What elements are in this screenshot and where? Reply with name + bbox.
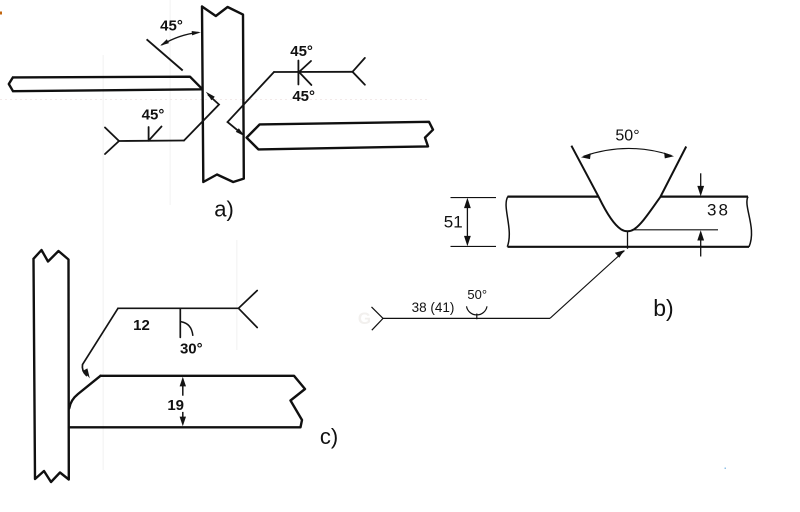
figure b: right S-curve break line — [747, 197, 752, 247]
svg-text:19: 19 — [167, 397, 184, 414]
figure c: horizontal plate with bevelled left end — [69, 376, 305, 428]
figure a: left weld symbol bevel symbol — [149, 127, 162, 141]
figure a: right weld symbol reference line — [228, 58, 365, 134]
figure b: plate cross-section top edge (right of groove) — [660, 196, 748, 198]
figure a: right weld symbol K (double bevel) symbol — [298, 61, 311, 86]
figure c: 19 dimension arrows — [182, 381, 184, 396]
figure b: plate cross-section bottom edge — [508, 246, 750, 248]
scan artifact: faint vertical streaks — [102, 55, 104, 470]
svg-text:50°: 50° — [615, 128, 639, 145]
svg-text:c): c) — [320, 424, 338, 449]
figure b: left S-curve break line — [506, 197, 509, 247]
svg-text:51: 51 — [444, 212, 463, 231]
svg-text:45°: 45° — [290, 43, 313, 60]
figure a: left horizontal plate with bevelled right end — [9, 77, 202, 92]
svg-text:45°: 45° — [142, 106, 165, 123]
svg-text:G: G — [358, 309, 371, 328]
figure c: bevel curve at plate left end — [69, 376, 100, 409]
figure a: right weld symbol leader — [228, 72, 275, 134]
figure b: U-groove weld preparation outline — [571, 146, 686, 232]
svg-text:b): b) — [653, 295, 673, 321]
figure b: 51 dimension double arrow — [466, 203, 468, 241]
figure b: 38 top arrow — [700, 173, 702, 191]
svg-text:a): a) — [214, 197, 234, 222]
figure a: right weld symbol tail fork — [353, 58, 365, 85]
figure b: 50deg angle arc with arrowheads — [584, 148, 672, 156]
svg-text:30°: 30° — [180, 341, 203, 358]
figure a: right horizontal plate with bevelled left end — [247, 122, 433, 150]
figure c: bevel symbol below line — [179, 308, 181, 337]
figure c: vertical plate (break lines top and bottom) — [34, 250, 69, 482]
scan artifact: orange fleck top-left — [0, 12, 2, 15]
figure a: left weld symbol leader — [184, 95, 219, 141]
figure b: leader arrow to weld root — [550, 251, 625, 319]
figure c: weld symbol tail fork — [239, 291, 258, 328]
figure a: vertical plate (break lines top and bottom) — [202, 7, 244, 183]
scan artifact: faint dotted line — [0, 99, 430, 101]
figure b: 51 dimension extension lines — [451, 198, 497, 247]
figure c: leader to joint — [82, 308, 118, 375]
scan artifact: blue speck bottom-right — [725, 468, 727, 470]
figure c: weld symbol reference line — [82, 291, 257, 376]
figure a: 45deg arc with arrowheads (top-left) — [162, 32, 199, 45]
figure b: weld symbol tail fork — [372, 307, 384, 330]
figure a: left weld symbol tail fork — [105, 95, 219, 154]
figure a: bevel construction line top-left — [147, 39, 183, 70]
figure b: 38 depth reference line — [634, 229, 718, 231]
svg-text:12: 12 — [133, 317, 150, 334]
figure b: 38 bottom arrow — [700, 236, 702, 257]
svg-text:45°: 45° — [292, 88, 315, 105]
svg-text:38 (41): 38 (41) — [412, 300, 455, 315]
figure a: left weld symbol reference line — [119, 140, 184, 143]
svg-text:38: 38 — [707, 201, 730, 220]
figure b: U-groove weld symbol — [467, 306, 488, 319]
svg-text:50°: 50° — [467, 287, 487, 302]
figure b: root gap line — [627, 232, 629, 249]
figure b: plate cross-section top edge (left of groove) — [508, 196, 599, 198]
figure c: 30deg angle arc — [181, 322, 193, 336]
figure b: weld symbol reference line — [383, 317, 550, 319]
svg-text:45°: 45° — [160, 18, 183, 35]
